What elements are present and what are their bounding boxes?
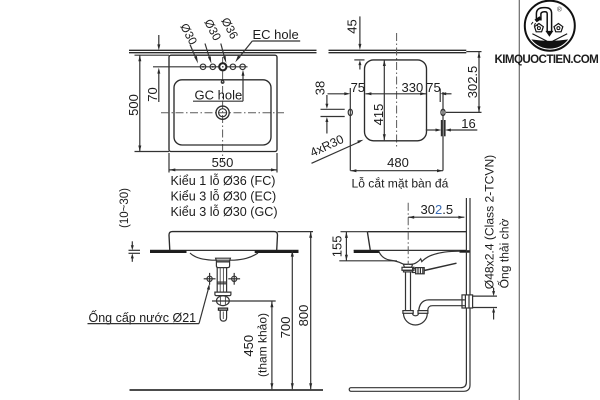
- svg-text:700: 700: [278, 317, 293, 339]
- svg-text:302.5: 302.5: [421, 202, 454, 217]
- svg-text:480: 480: [387, 155, 409, 170]
- svg-text:38: 38: [313, 81, 328, 95]
- svg-text:Kiểu 1 lỗ Ø36 (FC): Kiểu 1 lỗ Ø36 (FC): [171, 173, 276, 188]
- svg-text:GC hole: GC hole: [195, 88, 243, 103]
- svg-text:415: 415: [371, 104, 386, 126]
- svg-text:450: 450: [241, 335, 256, 357]
- svg-text:Ø48x2.4 (Class 2-TCVN): Ø48x2.4 (Class 2-TCVN): [482, 155, 496, 289]
- svg-text:®: ®: [557, 6, 562, 14]
- svg-text:75: 75: [426, 80, 440, 95]
- svg-text:EC hole: EC hole: [253, 27, 299, 42]
- svg-text:155: 155: [329, 236, 344, 258]
- svg-text:550: 550: [212, 155, 234, 170]
- svg-text:500: 500: [126, 94, 141, 116]
- svg-text:Lỗ cắt mặt bàn đá: Lỗ cắt mặt bàn đá: [352, 176, 449, 191]
- svg-text:Ống thải chờ: Ống thải chờ: [496, 219, 511, 289]
- svg-text:800: 800: [296, 305, 311, 327]
- svg-text:Kiểu 3 lỗ Ø30 (EC): Kiểu 3 lỗ Ø30 (EC): [171, 189, 277, 204]
- svg-text:302.5: 302.5: [465, 66, 480, 99]
- svg-text:Ống cấp nước Ø21: Ống cấp nước Ø21: [89, 310, 197, 325]
- svg-text:75: 75: [351, 80, 365, 95]
- svg-text:(10~30): (10~30): [119, 188, 131, 228]
- svg-text:Kiểu 3 lỗ Ø30 (GC): Kiểu 3 lỗ Ø30 (GC): [171, 204, 278, 219]
- svg-text:KIMQUOCTIEN.COM: KIMQUOCTIEN.COM: [495, 53, 599, 66]
- svg-text:70: 70: [145, 87, 160, 101]
- svg-text:330: 330: [402, 80, 424, 95]
- svg-text:(tham khảo): (tham khảo): [256, 313, 270, 377]
- svg-text:16: 16: [461, 116, 475, 131]
- svg-text:45: 45: [344, 19, 359, 33]
